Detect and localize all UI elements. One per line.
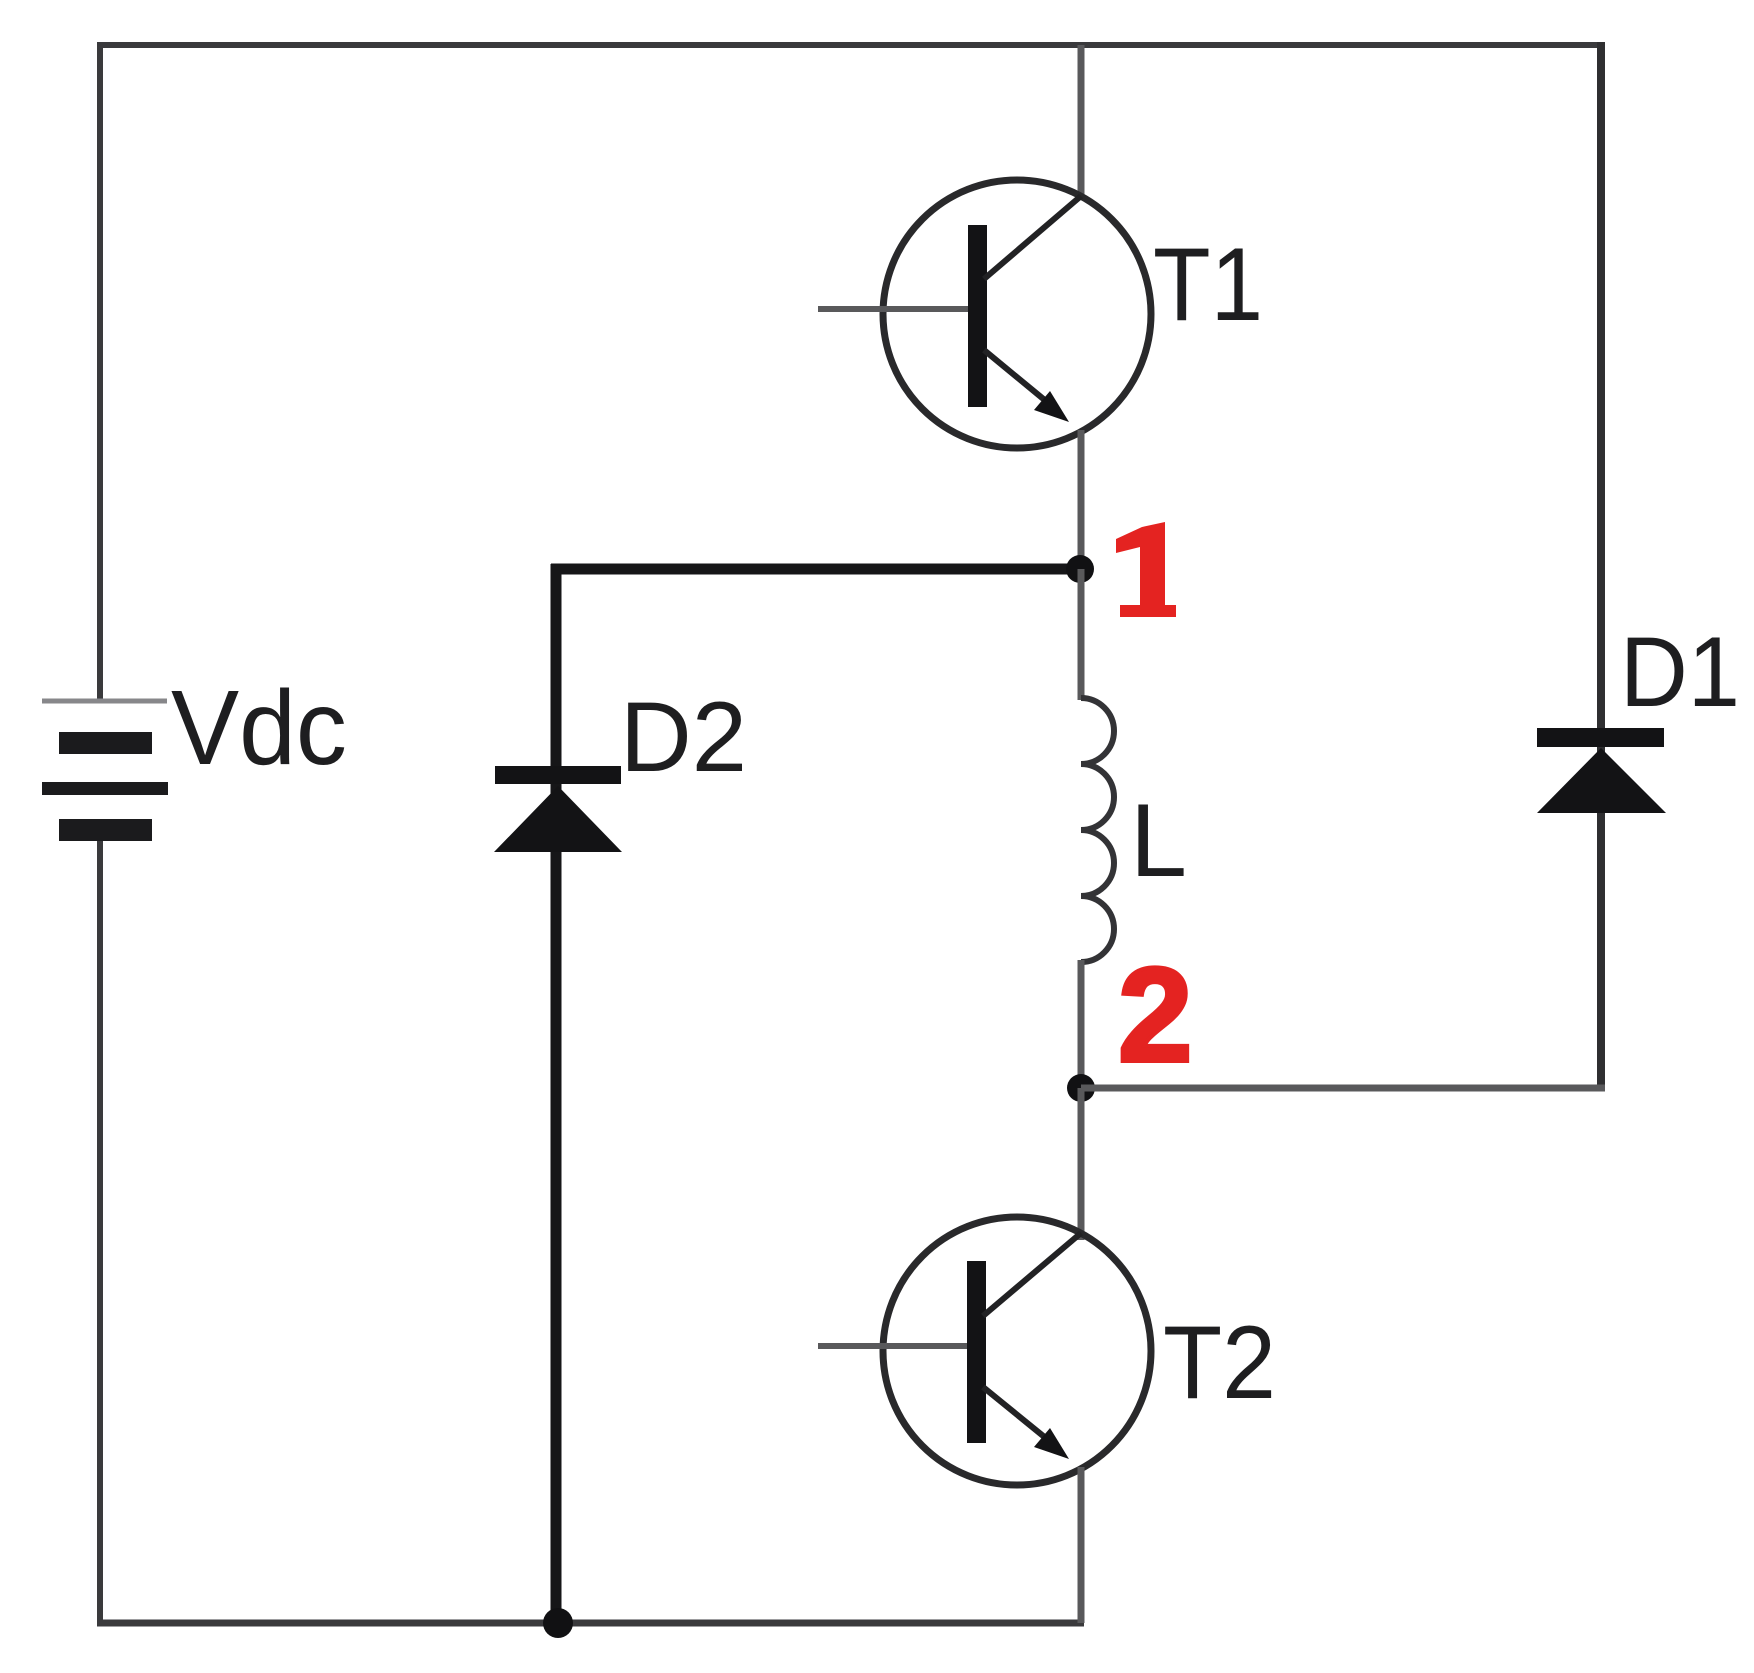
- transistor T2 emitter arrowhead: [1034, 1428, 1069, 1459]
- svg-text:2: 2: [1118, 941, 1193, 1090]
- svg-text:T2: T2: [1163, 1305, 1276, 1421]
- wire node 2 to right rail: [1081, 1085, 1605, 1092]
- transistor T2 emitter diagonal: [983, 1387, 1058, 1448]
- diode D1 triangle: [1537, 748, 1666, 813]
- transistor T1 emitter arrowhead: [1034, 391, 1069, 422]
- wire T1 emitter to node 1: [1078, 430, 1085, 575]
- node label 1 (red): [1116, 522, 1176, 617]
- transistor T2 collector diagonal: [983, 1233, 1081, 1316]
- transistor T1 base bar: [968, 225, 987, 407]
- diode D2 triangle: [494, 786, 622, 852]
- wire D2 branch vertical (thick black): [551, 564, 562, 1623]
- transistor T2 base stub: [818, 1343, 967, 1349]
- transistor T1 collector diagonal: [984, 196, 1081, 279]
- battery Vdc plate 3 (long thin): [42, 782, 168, 795]
- transistor T2 circle: [883, 1217, 1151, 1485]
- diode D1 cathode bar: [1537, 728, 1664, 747]
- wire bottom rail: [97, 1620, 1084, 1627]
- node 1 dot: [1066, 555, 1094, 583]
- junction dot bottom: [543, 1608, 573, 1638]
- wire node 2 to T2 collector: [1078, 1088, 1085, 1240]
- svg-text:T1: T1: [1153, 227, 1263, 343]
- wire left rail lower: [97, 841, 103, 1626]
- svg-text:L: L: [1130, 783, 1187, 899]
- wire right rail (D1 branch): [1597, 42, 1605, 1088]
- transistor T2: [818, 1217, 1151, 1485]
- svg-text:D1: D1: [1620, 616, 1740, 727]
- wire top rail: [97, 42, 1604, 48]
- wire T1 collector from top rail: [1078, 45, 1085, 197]
- diode D2 cathode bar: [495, 766, 621, 784]
- battery Vdc plate 1 (long thin): [42, 699, 167, 704]
- wire left rail upper: [97, 42, 103, 701]
- transistor T2 base bar: [967, 1261, 986, 1443]
- battery Vdc plate 4 (short thick): [59, 819, 152, 841]
- wire T2 emitter to bottom rail: [1078, 1467, 1085, 1623]
- inductor L: [1081, 698, 1114, 962]
- transistor T1 base stub: [818, 306, 968, 312]
- wire node1 to D2 (thick black): [551, 564, 1080, 575]
- battery Vdc plate 2 (short thick): [59, 732, 152, 754]
- wire inductor to node 2: [1078, 960, 1085, 1092]
- transistor T1 circle: [883, 180, 1151, 448]
- wire node 1 to inductor: [1078, 569, 1085, 700]
- node 2 dot: [1067, 1074, 1095, 1102]
- svg-text:Vdc: Vdc: [171, 669, 347, 787]
- transistor T1 emitter diagonal: [984, 350, 1058, 411]
- transistor T1: [818, 180, 1151, 448]
- svg-text:D2: D2: [620, 681, 747, 792]
